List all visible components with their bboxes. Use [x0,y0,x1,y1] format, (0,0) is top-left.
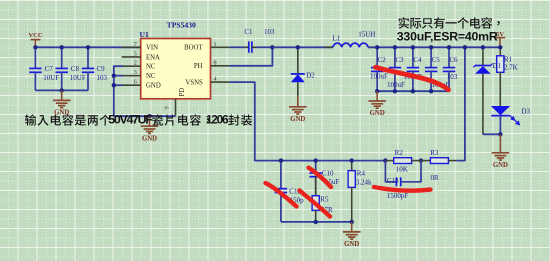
svg-text:1: 1 [214,42,217,48]
IC U1 TPS5430 [140,20,211,98]
svg-text:PH: PH [194,63,203,70]
resistor R1 [497,47,518,106]
capacitor C5 [425,47,450,91]
junction dot D1 [481,45,485,49]
IC pin names left [146,45,161,90]
red stroke over R5 [300,191,331,217]
IC pin name PD [179,88,186,97]
svg-text:NC: NC [146,73,156,80]
junction dots output caps [375,45,451,93]
svg-text:C4: C4 [413,56,422,64]
svg-text:C8: C8 [71,65,80,73]
red stroke over C13 [374,187,431,191]
svg-text:D1: D1 [492,62,501,70]
wire input cap bottom rail [35,89,88,91]
wire output rail [368,46,501,48]
svg-text:C10: C10 [322,169,334,177]
svg-text:2.7K: 2.7K [504,64,518,72]
svg-text:103: 103 [447,73,458,81]
svg-text:U1: U1 [140,30,149,39]
svg-text:0R: 0R [431,174,440,182]
svg-text:PD: PD [179,88,186,97]
junction dots bus [112,74,152,119]
junction dots input rails [33,45,90,93]
svg-text:L1: L1 [333,35,341,43]
svg-text:6: 6 [134,80,137,86]
svg-text:R2: R2 [395,149,404,157]
svg-text:GND: GND [370,110,385,117]
svg-text:D3: D3 [522,108,531,116]
svg-text:3: 3 [134,70,137,76]
node D3 cathode [498,132,502,136]
inductor L1 [325,31,377,48]
svg-text:330uF,ESR=40mR: 330uF,ESR=40mR [397,30,498,44]
annotation bottom CJK 2 [152,114,209,125]
svg-text:NC: NC [146,64,156,71]
svg-text:2: 2 [134,61,137,67]
wire 5V to R3 column [456,47,465,160]
svg-text:GND: GND [54,110,69,117]
diode D1 [474,47,502,134]
IC pin names right [184,45,203,87]
wire PH to switch node [229,47,272,66]
ground GND pin bus [141,116,159,142]
svg-text:C9: C9 [97,65,106,73]
red stroke over C12 [266,183,297,207]
svg-text:9: 9 [164,106,170,109]
svg-text:7: 7 [134,42,137,48]
power symbol 5V [495,31,506,47]
svg-text:GND: GND [493,162,508,169]
diode D2 [291,47,315,97]
red stroke over C10 [309,168,331,187]
capacitor C2 [370,47,388,91]
power symbol VCC [28,32,43,47]
svg-text:C5: C5 [432,56,441,64]
wire output cap bottom rail [377,90,449,92]
svg-text:10UF: 10UF [43,74,59,82]
diode D3 LED [491,106,531,134]
svg-text:C7: C7 [45,65,54,73]
ground GND input caps [53,90,71,116]
wire VCC rail to pin 7 [35,46,140,48]
resistor R4 [348,161,372,222]
node switch junction [270,45,274,49]
svg-text:100uF: 100uF [370,73,388,81]
annotation bottom CJK 1 [25,114,111,125]
capacitor C9 [82,47,108,90]
wire switch node [272,46,333,48]
ground GND output caps [368,91,386,117]
svg-text:TPS5430: TPS5430 [167,20,196,29]
svg-text:VSNS: VSNS [185,80,203,87]
wire pins 2-3-6 bus [114,66,176,116]
svg-text:VCC: VCC [28,32,43,39]
svg-text:R3: R3 [430,149,439,157]
annotation top line 2 [397,30,498,44]
wire bottom rail [281,221,352,223]
junction dots feedback rail [279,158,424,224]
svg-text:15UH: 15UH [358,31,375,39]
svg-text:3.24k: 3.24k [356,179,372,187]
capacitor C8 [56,47,86,90]
annotation bottom 1206 [206,113,229,127]
svg-text:R4: R4 [357,169,366,177]
wire VSNS feedback [229,82,385,161]
svg-text:4: 4 [214,77,217,83]
svg-text:GND: GND [344,241,359,248]
svg-text:R5: R5 [320,196,329,204]
svg-text:1500pF: 1500pF [387,192,409,200]
ground GND D3 [492,134,510,169]
svg-text:R1: R1 [504,55,513,63]
svg-text:50V47UF: 50V47UF [108,113,153,127]
annotation bottom 50V47UF [108,113,153,127]
svg-text:103: 103 [264,28,275,36]
IC left pins 7 5 2 3 6 [122,42,141,86]
svg-text:10K: 10K [396,165,408,173]
capacitor C6 [443,47,458,91]
red stroke over output caps [376,67,449,90]
capacitor C12 [275,161,304,222]
junction dot D2 [296,45,300,49]
junction dot R1 [498,45,502,49]
IC pin 9 stub [164,99,175,116]
svg-text:GND: GND [290,116,305,123]
capacitor C10 [310,161,340,196]
svg-text:C3: C3 [395,56,404,64]
svg-text:GND: GND [142,135,157,142]
svg-text:D2: D2 [306,72,315,80]
wire D1 to D3 node [483,133,501,135]
capacitor C1 [229,28,275,53]
svg-text:ENA: ENA [146,54,160,61]
svg-text:C6: C6 [449,56,458,64]
svg-text:VIN: VIN [146,45,158,52]
svg-text:8: 8 [214,60,217,66]
svg-text:C2: C2 [378,56,387,64]
ground GND bottom [343,222,361,248]
annotation top line 1 [398,17,499,29]
svg-text:103: 103 [97,74,108,82]
svg-text:BOOT: BOOT [184,45,203,52]
resistor R5 [312,177,333,222]
svg-text:C1: C1 [244,28,253,36]
annotation bottom CJK 3 [228,114,252,125]
capacitor C13 [385,161,421,200]
resistor R3 [421,149,456,182]
capacitor C3 [387,47,405,91]
svg-text:5: 5 [134,51,137,57]
ground GND D2 [289,97,307,123]
svg-text:100uF: 100uF [387,81,405,89]
junction dot 5V column [463,45,467,49]
svg-text:1206: 1206 [206,113,229,127]
IC right pins 1 8 4 [211,42,230,83]
svg-text:10UF: 10UF [70,74,86,82]
svg-text:GND: GND [146,83,161,90]
svg-text:C13: C13 [387,177,399,185]
capacitor C7 [29,47,59,90]
resistor R2 [385,149,421,173]
capacitor C4 [404,47,422,91]
